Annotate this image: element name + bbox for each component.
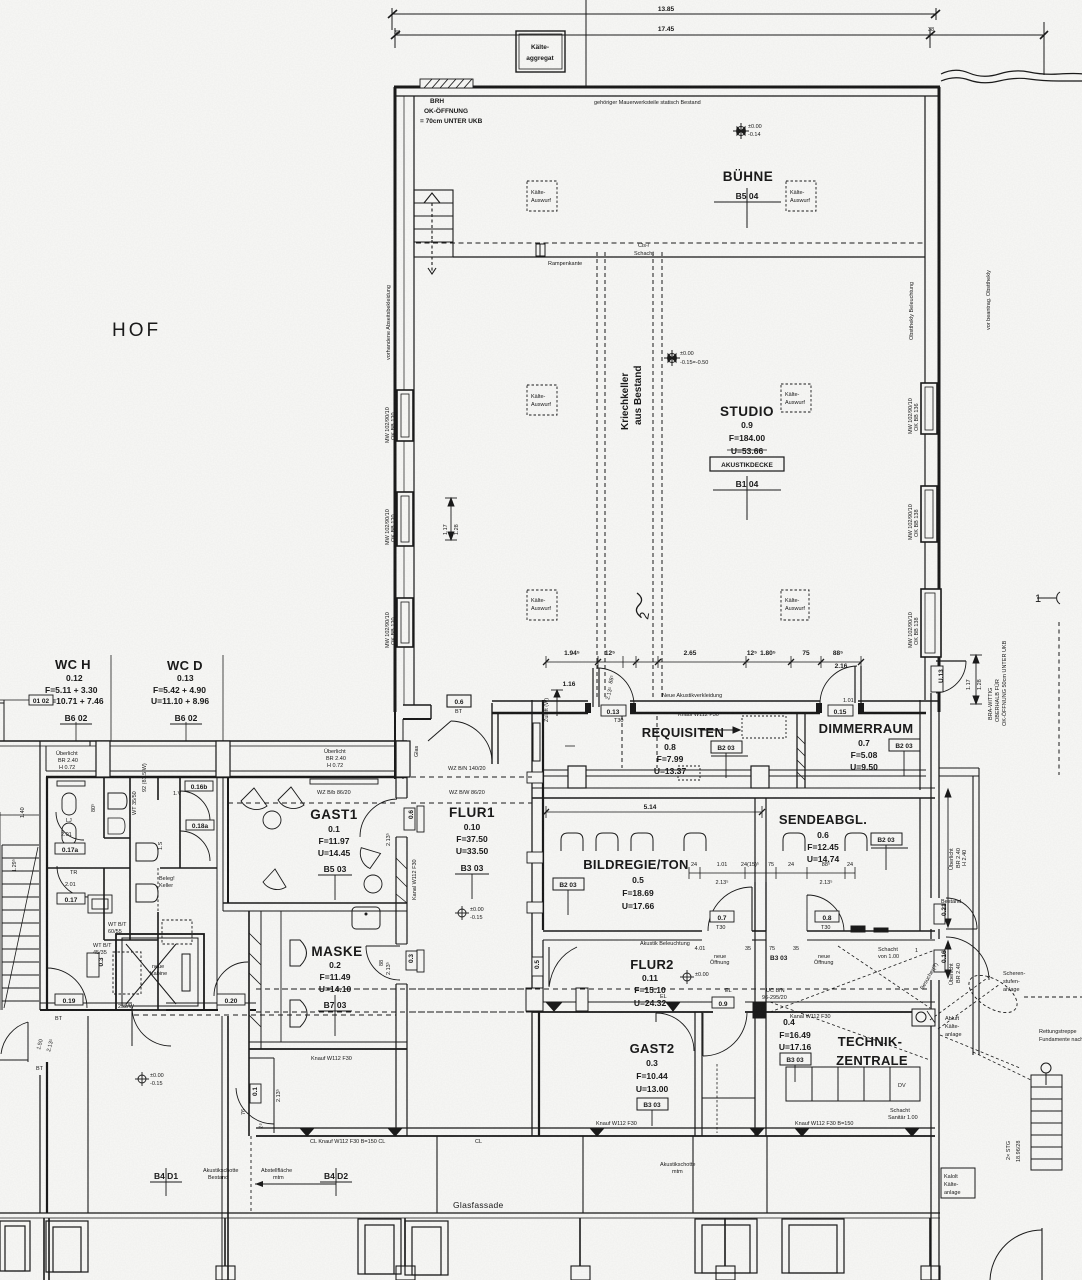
requisiten south wall xyxy=(543,766,926,788)
Kriechkeller rotated label xyxy=(620,366,644,430)
flur2 south wall xyxy=(532,1002,935,1012)
door 0.1 label below maske xyxy=(250,1084,261,1103)
door studio->corridor 0.6 xyxy=(428,721,451,741)
south wall gast2/technik xyxy=(256,1128,935,1136)
bottom right door arc xyxy=(990,1230,1042,1280)
studio south wall / requisiten north wall xyxy=(395,701,939,779)
door 0.8 sendeabgl xyxy=(807,895,844,931)
wall between flur2 doors xyxy=(753,882,766,1136)
dotted rect requisiten bottom xyxy=(678,766,700,780)
pier boxes xyxy=(0,1219,844,1275)
door left edge lower xyxy=(1,1022,28,1054)
gast1 mirror shelf xyxy=(310,779,378,784)
wc small labels xyxy=(55,781,245,1005)
dashed box with arrow in requisiten east xyxy=(742,716,786,738)
annex north wall xyxy=(939,767,979,769)
oberlicht long arrow annex xyxy=(945,789,951,978)
annex west wall xyxy=(931,693,939,1280)
dim 5.14 line xyxy=(543,806,765,818)
door flur2->0.9 xyxy=(703,1013,747,1056)
door 0.13 label xyxy=(601,675,626,716)
door flur1->flur2 xyxy=(548,947,550,986)
west wall windows xyxy=(397,390,413,647)
door 0.1 arc below maske xyxy=(236,1088,274,1124)
dashed ellipse scheren xyxy=(963,968,1024,1020)
corridor vertical window bar right of gast1 wall xyxy=(417,806,424,832)
door 0.6 label corridor xyxy=(447,695,471,715)
dimension line flur2 doors xyxy=(689,867,855,879)
small tee symbol on stage edge xyxy=(536,244,545,256)
rotated wall notes east xyxy=(908,270,992,648)
desks bildregie xyxy=(561,833,706,851)
fixture box with circle xyxy=(912,1009,935,1026)
kriechkeller dashed strips xyxy=(597,252,662,768)
WC block east wall xyxy=(216,777,218,1010)
dimmerraum east wall xyxy=(919,700,921,790)
technik equipment row xyxy=(786,1067,920,1101)
desks sendeabgl xyxy=(783,833,867,851)
AKUSTIKDECKE box xyxy=(710,457,784,471)
dashed akustik line xyxy=(250,1136,252,1213)
left wall xyxy=(394,87,397,712)
door 0.16 arc xyxy=(946,937,989,980)
facade mullions above xyxy=(88,741,767,1280)
below facade verticals with feet xyxy=(44,1218,930,1280)
gast1 west wall xyxy=(222,777,224,911)
right wall xyxy=(938,87,941,712)
washbasin blocks lower wc xyxy=(88,868,192,994)
dim rotated 1.17/1.28 xyxy=(443,524,460,535)
WC top wall with oberlicht band xyxy=(0,741,575,777)
door 0.15 label xyxy=(828,698,854,716)
toilets xyxy=(62,793,158,902)
shelf top left xyxy=(57,781,85,786)
level marker buehne xyxy=(733,123,749,139)
door labels 0.7 0.8 xyxy=(710,911,839,931)
level marker flur2 xyxy=(680,970,694,984)
door 0.5 label vertical xyxy=(532,957,543,976)
bildregie/sendeabgl divider xyxy=(755,798,766,931)
maske south wall xyxy=(249,1042,407,1049)
left building structure xyxy=(0,655,575,1213)
door U.13 xyxy=(936,661,966,693)
flur1 level marker xyxy=(455,906,469,920)
wc door arcs xyxy=(56,791,210,897)
stairs left xyxy=(0,812,39,1010)
poche ticks maske west wall xyxy=(249,858,407,1027)
door label 0.9 xyxy=(712,997,734,1008)
elevator lobby bottom wall xyxy=(40,1003,256,1010)
vertical arrow left of requisiten xyxy=(551,690,563,716)
neighbour wall stub far left xyxy=(0,702,4,704)
B1/04 cross xyxy=(713,476,781,520)
dim texts above requisiten xyxy=(563,650,848,688)
gast1 south / maske north wall xyxy=(223,903,407,911)
stage edge solid line xyxy=(453,256,925,258)
gast1 chairs xyxy=(241,787,383,893)
kaelte dashed boxes (6) xyxy=(527,181,816,620)
B4 D1/D2 crosses xyxy=(150,1168,182,1196)
maske fixtures xyxy=(290,907,380,1027)
site boundary squiggle top right xyxy=(941,70,1082,76)
east wall windows xyxy=(921,383,941,657)
gast1 door arc xyxy=(360,799,397,837)
wc interior partitions xyxy=(47,777,217,1010)
vertical leader at x=586 xyxy=(585,0,587,86)
top dimension line 17.45 xyxy=(391,22,1048,75)
lobby doors xyxy=(47,962,248,1046)
vertical dim 1.17/1.28 inside studio west xyxy=(445,498,457,540)
door labels 0.6 / 0.3 vertical xyxy=(404,808,417,970)
door studio->requisiten xyxy=(597,668,634,706)
middle/south rooms xyxy=(256,656,939,1136)
bottom facade xyxy=(0,741,940,1280)
texts: top + hall xyxy=(112,6,992,648)
stage edge dashed line xyxy=(416,242,925,244)
annex east wall xyxy=(972,776,974,1055)
door 0.21 arc xyxy=(946,898,977,929)
Kaelteaggregat box xyxy=(516,31,565,72)
door studio->dimmerraum xyxy=(820,666,857,703)
bildregie north wall xyxy=(532,788,935,798)
wall below maske xyxy=(273,1058,275,1133)
top wall xyxy=(394,86,940,89)
maske west wall + niche xyxy=(249,911,281,1136)
level marker lobby xyxy=(135,1072,149,1086)
vestibule partitions xyxy=(702,1097,755,1099)
gast1/maske east wall xyxy=(396,777,407,1136)
door frames on flur1 east wall xyxy=(527,772,543,783)
section arrow 1 xyxy=(1037,592,1060,604)
dashed ceiling line flur2 xyxy=(256,988,930,990)
glasfassade lines xyxy=(0,1212,940,1214)
door jamb marks xyxy=(585,703,591,713)
main hall outer walls xyxy=(394,87,940,712)
requisiten/dimmerraum divider xyxy=(797,714,805,788)
vertical dashed section line xyxy=(1058,622,1060,775)
level marker studio xyxy=(664,350,680,366)
right annex xyxy=(912,592,1082,1280)
dimension line above requisiten xyxy=(543,656,864,668)
left building texts xyxy=(11,657,495,1196)
sendeabgl east wall xyxy=(919,798,921,931)
maske door arc xyxy=(366,946,400,980)
right stair (rettungstreppe) xyxy=(1031,1063,1062,1170)
right annex texts xyxy=(920,593,1082,1196)
door 0.7 bildregie xyxy=(708,887,752,931)
door gast2 NE xyxy=(656,1013,694,1051)
left outer wall xyxy=(40,741,47,1213)
top dimension line 13.85 xyxy=(388,8,940,30)
squiggle mark "2" in studio xyxy=(636,593,641,617)
B5/04 cross xyxy=(714,188,781,228)
elevator shaft xyxy=(116,934,204,1010)
gast2 east wall xyxy=(694,1012,696,1136)
rotated wall notes west xyxy=(385,285,397,648)
flur1 east wall / rooms west wall xyxy=(532,700,543,1136)
dim texts doors flur2 xyxy=(691,861,853,886)
kalolt box xyxy=(941,1168,975,1198)
vertical dim right 1.17/1.28 xyxy=(970,655,982,704)
dashed diagonals to schacht xyxy=(770,946,935,1060)
bildregie south wall xyxy=(543,926,935,940)
dashed diagonals rettungstreppe xyxy=(930,976,1031,1080)
hatched opening top-left of hall xyxy=(420,79,473,88)
label leader lines xyxy=(110,655,112,741)
middle/south room texts xyxy=(447,650,920,1210)
dashed ceiling lines xyxy=(134,777,532,1015)
stage stair block xyxy=(414,190,453,274)
